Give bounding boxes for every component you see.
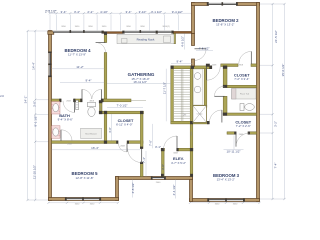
wall bedroom4 bottom segment b bbox=[74, 99, 82, 102]
svg-text:3050(2): 3050(2) bbox=[162, 26, 169, 28]
svg-text:16'-4": 16'-4" bbox=[91, 146, 99, 150]
svg-text:7'-2" X 3'-4": 7'-2" X 3'-4" bbox=[234, 77, 249, 81]
interior dimension bedroom3 bbox=[224, 136, 244, 150]
window band bedroom4 top bbox=[53, 30, 104, 33]
wall closetB bottom a bbox=[227, 132, 236, 134]
door elevator bbox=[164, 136, 178, 150]
interior dimension stair hall bbox=[165, 69, 167, 122]
wall recess bottom bbox=[116, 177, 193, 180]
wall bedroom5 notch right bbox=[116, 177, 119, 201]
wall bedroom4 right upper bbox=[104, 34, 107, 43]
dimension text top row bbox=[45, 10, 183, 14]
wire dimension line bottom bbox=[49, 202, 260, 204]
interior dimension closet5 bbox=[110, 114, 112, 141]
svg-text:9'-4" X 8'-6": 9'-4" X 8'-6" bbox=[58, 118, 73, 122]
window bedroom4 left wall bbox=[48, 52, 51, 78]
svg-text:2'-5 1/2": 2'-5 1/2" bbox=[45, 10, 57, 14]
svg-text:4'-8 1/2": 4'-8 1/2" bbox=[180, 36, 184, 47]
wall nook right bbox=[173, 34, 175, 44]
wall bed2 left lower stub bbox=[192, 34, 195, 46]
wall bedroom4 right lower bbox=[104, 53, 107, 100]
svg-text:7'-4": 7'-4" bbox=[274, 163, 278, 169]
wall elevator left bbox=[162, 148, 165, 176]
wall hall bottom bbox=[171, 121, 209, 124]
wall closet5 bottom b bbox=[127, 141, 143, 144]
vanity 1 with sink bbox=[52, 102, 61, 115]
wall top solid segment mid bbox=[104, 32, 123, 34]
svg-text:8'-1 1/2": 8'-1 1/2" bbox=[33, 116, 37, 127]
door bed5 entry bbox=[128, 149, 142, 163]
wall end caps bbox=[59, 32, 250, 177]
svg-text:11'-7 1/2": 11'-7 1/2" bbox=[162, 82, 166, 94]
wall chute right bbox=[204, 69, 207, 107]
interior dimension bed4 a bbox=[52, 68, 105, 70]
door bed2 hall bbox=[207, 67, 221, 81]
wall exterior right bbox=[257, 3, 260, 202]
wall exterior top main: corner block bbox=[48, 31, 54, 34]
interior dimension bed4 b bbox=[60, 82, 104, 84]
svg-text:3'-1 1/2": 3'-1 1/2" bbox=[151, 10, 162, 14]
wall bed2 bottom jamb bbox=[206, 64, 210, 67]
svg-text:2-6: 2-6 bbox=[0, 94, 4, 98]
chute box bbox=[193, 69, 202, 105]
svg-text:4'-0": 4'-0" bbox=[108, 127, 112, 132]
window bedroom5 bottom bbox=[65, 197, 101, 200]
window recess wall bbox=[151, 176, 166, 184]
window band bedroom2 top bbox=[207, 2, 238, 5]
stairs bbox=[174, 69, 190, 122]
door bath bottom bbox=[61, 130, 72, 141]
svg-text:11'-2": 11'-2" bbox=[76, 65, 83, 69]
wall stairs top bbox=[171, 66, 212, 69]
wall closet5 bottom a bbox=[104, 141, 118, 144]
wall closetA bottom bbox=[227, 85, 257, 87]
door bath top bbox=[63, 101, 75, 113]
reading nook box bbox=[117, 34, 174, 43]
wire dimension extension lines top bbox=[50, 13, 193, 30]
interior dimension bed5 width bbox=[52, 149, 141, 151]
svg-text:4'-4 1/2": 4'-4 1/2" bbox=[172, 185, 176, 196]
svg-text:2'-2": 2'-2" bbox=[87, 10, 93, 14]
chute circles bbox=[194, 73, 201, 80]
wall bed5 right lower bbox=[140, 163, 143, 177]
interior dimension gathering height bbox=[107, 83, 171, 85]
toilet bath bbox=[88, 102, 96, 116]
wall bed2 bottom b bbox=[221, 64, 238, 67]
svg-text:21'-5 1/2": 21'-5 1/2" bbox=[274, 30, 278, 43]
wall exterior left bbox=[49, 31, 52, 201]
svg-text:Place Tub: Place Tub bbox=[240, 94, 250, 96]
svg-text:9'-4": 9'-4" bbox=[177, 60, 183, 64]
wall chase top bbox=[193, 105, 207, 107]
svg-text:10'-11 1/2": 10'-11 1/2" bbox=[226, 150, 240, 154]
wall bedroom3 bottom bbox=[190, 199, 260, 202]
svg-text:3'-0": 3'-0" bbox=[161, 164, 165, 170]
svg-text:Reading Nook: Reading Nook bbox=[137, 37, 155, 41]
svg-text:DN: DN bbox=[183, 114, 187, 117]
wire dimension lines left bbox=[28, 31, 52, 200]
svg-text:13'-8" X 13'-2": 13'-8" X 13'-2" bbox=[216, 22, 234, 26]
window band top right bbox=[158, 30, 174, 33]
wall closetB bottom b bbox=[248, 132, 257, 134]
wall elevator top b bbox=[177, 148, 193, 151]
svg-text:3'-4": 3'-4" bbox=[74, 10, 80, 14]
window bedroom3 bottom bbox=[207, 198, 245, 201]
wall stairs chase divider bbox=[190, 69, 193, 124]
dimension text right column bbox=[274, 30, 285, 168]
interior dimension recess b bbox=[175, 180, 177, 199]
interior dimension corridor bbox=[107, 107, 143, 109]
toilet tub room bbox=[240, 104, 254, 111]
window band nook bbox=[125, 30, 158, 33]
place tub box bbox=[232, 89, 257, 100]
svg-text:16'-11 1/2": 16'-11 1/2" bbox=[133, 80, 147, 84]
wall closet5 left bbox=[104, 111, 107, 143]
svg-text:7'-2" X 2'-6": 7'-2" X 2'-6" bbox=[236, 124, 251, 128]
door bed2 closet bbox=[239, 51, 252, 64]
svg-text:Chase: Chase bbox=[197, 114, 204, 116]
svg-text:4'-7" X 5'-2": 4'-7" X 5'-2" bbox=[171, 161, 186, 165]
wall bath closet top bbox=[100, 111, 144, 114]
svg-text:3'-2": 3'-2" bbox=[274, 121, 278, 127]
svg-text:9'-4 1/2": 9'-4 1/2" bbox=[172, 10, 183, 14]
tiled shower box bbox=[81, 128, 102, 138]
svg-text:4'-8 1/2": 4'-8 1/2" bbox=[199, 47, 210, 51]
wall closet5 bed5 right upper bbox=[140, 111, 143, 148]
pocket door bath wc bbox=[76, 100, 79, 109]
chase box with X bbox=[193, 106, 207, 123]
wall stairs left bbox=[171, 66, 174, 124]
wall bedroom4 bottom segment a bbox=[52, 99, 62, 102]
window size labels bottom bbox=[75, 204, 238, 206]
svg-text:4'-10": 4'-10" bbox=[100, 10, 108, 14]
svg-text:14'-4": 14'-4" bbox=[31, 62, 35, 70]
svg-text:Tiled Shower: Tiled Shower bbox=[85, 132, 97, 135]
door bed3 from hall bbox=[209, 110, 222, 123]
svg-text:3'-4": 3'-4" bbox=[61, 10, 67, 14]
svg-text:3'-4": 3'-4" bbox=[126, 10, 132, 14]
svg-text:11'-7" X 13'-9": 11'-7" X 13'-9" bbox=[68, 53, 86, 57]
svg-text:7'-6": 7'-6" bbox=[149, 140, 153, 146]
wall bed2 bottom c bbox=[251, 64, 257, 67]
svg-text:6'-11" X 4'-0": 6'-11" X 4'-0" bbox=[116, 123, 132, 127]
interior dimension bed2 west bbox=[184, 34, 213, 51]
svg-text:12'-8" X 11'-8": 12'-8" X 11'-8" bbox=[75, 176, 93, 180]
wall elevator top a bbox=[162, 148, 165, 151]
svg-text:34'-1": 34'-1" bbox=[24, 96, 28, 104]
wall elevator right exterior bbox=[190, 177, 193, 202]
door bed4 double bbox=[82, 89, 102, 99]
wall bed3 left upper bbox=[190, 124, 193, 148]
wire dimension lines right bbox=[260, 4, 285, 199]
svg-text:7'-0 1/2": 7'-0 1/2" bbox=[117, 104, 128, 108]
wall wc right bbox=[100, 101, 103, 114]
svg-text:11'-10 1/2": 11'-10 1/2" bbox=[32, 165, 36, 179]
svg-text:3'-10": 3'-10" bbox=[139, 10, 147, 14]
interior dimension recess a bbox=[132, 180, 134, 198]
wire cased opening corridor bbox=[131, 99, 146, 101]
wall bed2 left bottom stub bbox=[192, 59, 195, 67]
door bed4 bbox=[96, 42, 106, 52]
vanity 2 with sink bbox=[52, 126, 61, 139]
svg-text:3'-1": 3'-1" bbox=[155, 145, 161, 149]
svg-text:35'-0 1/2": 35'-0 1/2" bbox=[281, 64, 285, 77]
wall top solid right segment bbox=[174, 31, 192, 33]
svg-text:9'-4": 9'-4" bbox=[86, 79, 92, 83]
svg-text:7'-4": 7'-4" bbox=[142, 157, 146, 163]
wall bedroom2 left bbox=[192, 3, 195, 34]
window size labels top bbox=[61, 26, 170, 28]
svg-text:3'-0": 3'-0" bbox=[33, 101, 37, 107]
door tub room bbox=[214, 86, 224, 96]
svg-text:13'-4" X 13'-2": 13'-4" X 13'-2" bbox=[217, 178, 235, 182]
wall hall closet left upper bbox=[223, 66, 227, 86]
wall bedroom4 bottom segment c bbox=[102, 99, 132, 102]
wall tubroom bottom bbox=[223, 113, 256, 115]
door closetB bbox=[236, 133, 250, 147]
wall hall closet left lower bbox=[223, 96, 227, 115]
door bed2 west bbox=[195, 49, 207, 61]
interior dimension stairs bbox=[171, 63, 193, 65]
wall bedroom2 top bbox=[192, 3, 209, 6]
svg-text:4'-8 1/2": 4'-8 1/2" bbox=[131, 183, 135, 194]
door closet5 bbox=[119, 143, 128, 152]
wall bedroom5 bottom bbox=[49, 198, 119, 201]
wall bath bottom bbox=[52, 141, 105, 144]
dimension text left column bbox=[24, 62, 38, 179]
dimension tick slashes bbox=[27, 3, 286, 204]
wall elevator right bbox=[190, 148, 193, 176]
interior dimension corridor lower bbox=[146, 124, 153, 177]
